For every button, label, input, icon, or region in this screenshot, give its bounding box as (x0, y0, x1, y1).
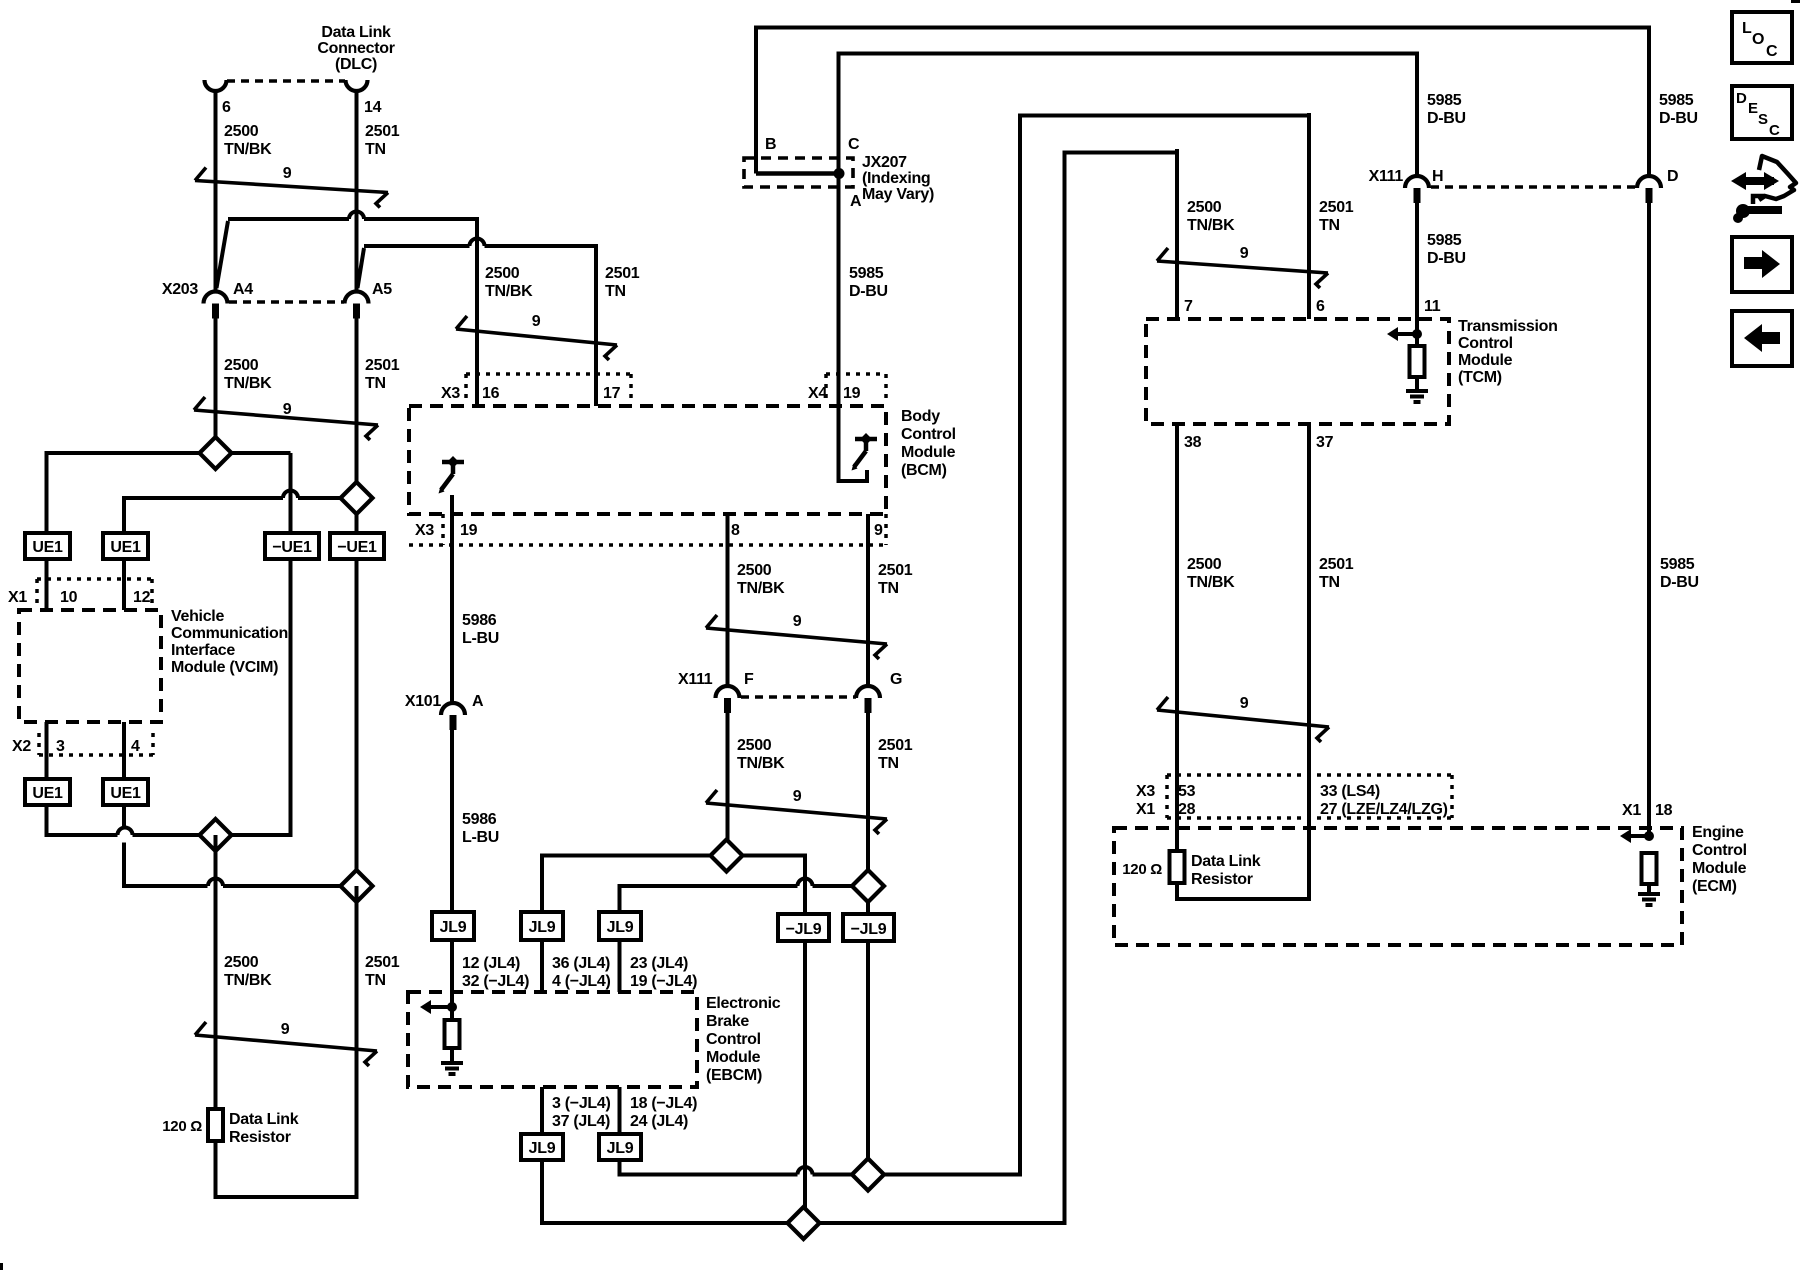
svg-text:Control: Control (1458, 335, 1513, 352)
svg-text:Interface: Interface (171, 642, 235, 659)
svg-text:120 Ω: 120 Ω (162, 1118, 202, 1135)
svg-text:A: A (472, 693, 484, 710)
wire 2501 TN DLC-14 to X203-A5 (355, 90, 359, 292)
wire tap from A4 to BCM X3-16 (horizontal y219) (228, 217, 349, 221)
resistor inside EBCM (445, 1020, 460, 1048)
svg-text:(Indexing: (Indexing (862, 170, 930, 187)
svg-text:4: 4 (131, 738, 140, 755)
wire JL9-3 to EBCM (618, 940, 622, 992)
icon harness arrows (1741, 177, 1774, 185)
wire EBCM resistor to ground (450, 1048, 454, 1062)
connector X111-D (dome) (1637, 176, 1661, 188)
svg-text:X1: X1 (8, 589, 27, 606)
svg-text:28: 28 (1178, 801, 1196, 818)
connector X203 dashed body (229, 300, 344, 304)
wire UE1-6 down crossing y835 (122, 804, 126, 828)
svg-text:Vehicle: Vehicle (171, 608, 224, 625)
wire 5985 D-BU C through JX207 to BCM X4 (837, 52, 841, 375)
svg-text:12 (JL4): 12 (JL4) (462, 955, 520, 972)
svg-text:120 Ω: 120 Ω (1122, 861, 1162, 878)
svg-text:9: 9 (1240, 245, 1249, 262)
wire 5985 H to TCM pin11 (1415, 203, 1419, 319)
svg-text:11: 11 (1424, 298, 1441, 315)
svg-text:C: C (1769, 122, 1780, 139)
connector X111 F-G dashed body (741, 695, 856, 699)
svg-text:D-BU: D-BU (849, 283, 888, 300)
wire UE1-5 down to y835 (45, 804, 49, 837)
svg-text:TN/BK: TN/BK (224, 375, 272, 392)
svg-text:3 (−JL4): 3 (−JL4) (552, 1095, 611, 1112)
svg-text:Resistor: Resistor (229, 1129, 291, 1146)
svg-text:37 (JL4): 37 (JL4) (552, 1113, 610, 1130)
module BCM dashed box (409, 406, 886, 514)
bus crossing 9 (DLC pair) (195, 181, 388, 193)
svg-text:2500: 2500 (224, 357, 259, 374)
wire horizontal y855 (542, 854, 711, 858)
wire B to C junction inside JX207 (754, 170, 758, 174)
bus crossing 9 (TCM lower) (1157, 710, 1329, 727)
svg-text:2501: 2501 (1319, 556, 1354, 573)
svg-text:TN/BK: TN/BK (737, 755, 785, 772)
svg-text:Body: Body (901, 408, 940, 425)
connector X4 pin row (BCM top) (826, 372, 886, 376)
svg-text:9: 9 (283, 165, 292, 182)
bus crossing 9 (BCM top pair) (456, 329, 617, 345)
wire -UE1-3 drop (289, 453, 293, 533)
wire B drop (754, 26, 758, 173)
svg-text:2500: 2500 (224, 123, 259, 140)
wire top y53 C to H (837, 52, 1420, 56)
bus crossing 9 (F/G lower) (706, 803, 887, 819)
splice UE1 box 2 (103, 533, 148, 559)
svg-text:Module (VCIM): Module (VCIM) (171, 659, 278, 676)
svg-text:X203: X203 (162, 281, 199, 298)
svg-text:Module: Module (1458, 352, 1513, 369)
svg-text:D-BU: D-BU (1427, 250, 1466, 267)
svg-text:TN/BK: TN/BK (224, 141, 272, 158)
wire 2501 TN A5 down (355, 318, 359, 498)
svg-text:14: 14 (364, 99, 382, 116)
connector X101-A (dome) (441, 703, 465, 715)
svg-text:5985: 5985 (1427, 92, 1462, 109)
svg-text:Brake: Brake (706, 1013, 749, 1030)
svg-text:−JL9: −JL9 (786, 921, 822, 938)
svg-text:6: 6 (222, 99, 231, 116)
svg-text:F: F (744, 671, 754, 688)
splice UE1 box 1 (25, 533, 70, 559)
svg-text:TN: TN (365, 141, 386, 158)
splice -UE1 box 4 (330, 533, 384, 559)
svg-text:38: 38 (1184, 434, 1202, 451)
connector JX207 dashed box (744, 158, 853, 187)
svg-text:2501: 2501 (1319, 199, 1354, 216)
svg-text:TN: TN (878, 755, 899, 772)
wire 5986 L-BU to JL9 (450, 730, 454, 912)
svg-text:−JL9: −JL9 (851, 921, 887, 938)
wire JL9-7 to y1174 (618, 1160, 622, 1177)
svg-text:TN: TN (365, 375, 386, 392)
svg-text:Module: Module (1692, 860, 1747, 877)
svg-text:Control: Control (1692, 842, 1747, 859)
svg-text:2501: 2501 (878, 737, 913, 754)
svg-text:TN: TN (1319, 217, 1340, 234)
svg-text:2501: 2501 (365, 123, 400, 140)
connector X2 pin row (39, 753, 153, 757)
wire tap from A5 to BCM X3-17 (horizontal y246) (364, 244, 470, 248)
svg-text:X1: X1 (1622, 802, 1641, 819)
svg-text:27 (LZE/LZ4/LZG): 27 (LZE/LZ4/LZG) (1320, 801, 1448, 818)
svg-text:D: D (1667, 168, 1678, 185)
svg-text:A5: A5 (372, 281, 392, 298)
svg-text:9: 9 (283, 401, 292, 418)
ground inside EBCM (441, 1061, 463, 1065)
wire inside EBCM to ground (450, 992, 454, 1020)
node junction diamond at (868,886) (852, 870, 884, 902)
svg-text:D-BU: D-BU (1427, 110, 1466, 127)
wire D drop (1647, 26, 1651, 177)
svg-text:37: 37 (1316, 434, 1334, 451)
splice JL9 box 2 (521, 912, 563, 940)
connector X111-F (dome) (716, 686, 740, 698)
wire X3-17 into BCM (594, 374, 598, 406)
svg-text:9: 9 (281, 1021, 290, 1038)
splice -JL9 box 6 (843, 914, 894, 941)
wire 5985 D to ECM (1647, 203, 1651, 836)
wire horizontal y453 to UE1 branches (47, 451, 200, 455)
icon back arrow box (1732, 311, 1792, 366)
wire JL9-1 to EBCM (450, 940, 454, 992)
connector DLC pin 14 (cup) (346, 80, 368, 91)
bus crossing 9 (A4/A5 pair) (194, 410, 378, 425)
svg-text:JL9: JL9 (529, 919, 556, 936)
node junction diamond at (357,498) (341, 482, 373, 514)
svg-text:X3: X3 (1136, 783, 1155, 800)
wire JL9-2 to EBCM (540, 940, 544, 992)
wire top y27 B to D (754, 26, 1651, 30)
mark top right corner (1791, 0, 1800, 3)
svg-text:JX207: JX207 (862, 154, 907, 171)
bus crossing 9 (left resistor pair) (195, 1035, 377, 1051)
svg-text:TN: TN (605, 283, 626, 300)
svg-text:16: 16 (482, 385, 500, 402)
svg-text:19 (−JL4): 19 (−JL4) (630, 973, 697, 990)
svg-text:5986: 5986 (462, 612, 497, 629)
wire horizontal y886 right (620, 884, 798, 888)
module TCM dashed box (1146, 319, 1449, 424)
splice UE1 box 6 (103, 779, 148, 805)
svg-text:5985: 5985 (1659, 92, 1694, 109)
connector X3 pin row (BCM bottom) (441, 514, 445, 545)
svg-text:36 (JL4): 36 (JL4) (552, 955, 610, 972)
ground inside ECM (1638, 892, 1660, 896)
svg-text:May Vary): May Vary) (862, 186, 934, 203)
wire y1223 to x1063 riser (820, 1221, 1067, 1225)
svg-text:(ECM): (ECM) (1692, 878, 1737, 895)
connector X3/X1 pin row (ECM) (1167, 773, 1452, 777)
wire UE1-2 drop (122, 496, 126, 533)
svg-text:A: A (850, 193, 862, 210)
svg-text:Control: Control (901, 426, 956, 443)
connector X111-H (dome) (1405, 176, 1429, 188)
svg-text:2501: 2501 (878, 562, 913, 579)
wire pin11 inside TCM (1415, 319, 1419, 346)
svg-text:X111: X111 (1369, 168, 1404, 185)
svg-text:9: 9 (793, 788, 802, 805)
svg-text:19: 19 (460, 522, 478, 539)
svg-text:5985: 5985 (849, 265, 884, 282)
svg-text:X4: X4 (808, 385, 827, 402)
svg-text:Data Link: Data Link (1191, 853, 1261, 870)
wire -UE1-4 drop (355, 514, 359, 533)
svg-text:TN: TN (878, 580, 899, 597)
svg-text:19: 19 (843, 385, 861, 402)
wire G down to diamond (866, 713, 870, 886)
splice JL9 box 3 (599, 912, 641, 940)
wire -UE1-4 down to diamond (355, 559, 359, 870)
wire pin8 to X111-F (726, 514, 730, 687)
splice -JL9 box 5 (778, 914, 829, 941)
svg-text:D-BU: D-BU (1659, 110, 1698, 127)
svg-text:Transmission: Transmission (1458, 318, 1558, 335)
mark bottom left edge (0, 1263, 3, 1270)
wire X2-4 to UE1-6 (122, 722, 126, 779)
svg-text:E: E (1748, 100, 1758, 117)
svg-text:24 (JL4): 24 (JL4) (630, 1113, 688, 1130)
svg-text:4 (−JL4): 4 (−JL4) (552, 973, 611, 990)
svg-text:TN: TN (1319, 574, 1340, 591)
wire JL9-4 to y1223 (540, 1160, 544, 1225)
svg-text:2500: 2500 (1187, 556, 1222, 573)
svg-text:33 (LS4): 33 (LS4) (1320, 783, 1380, 800)
svg-text:Electronic: Electronic (706, 995, 781, 1012)
connector X1 pin row (37, 577, 152, 581)
svg-text:23 (JL4): 23 (JL4) (630, 955, 688, 972)
wire EBCM pin18/24 down (618, 1087, 622, 1134)
svg-text:TN/BK: TN/BK (737, 580, 785, 597)
svg-text:TN/BK: TN/BK (1187, 217, 1235, 234)
svg-text:L-BU: L-BU (462, 630, 499, 647)
svg-text:32 (−JL4): 32 (−JL4) (462, 973, 529, 990)
connector X203-A5 (dome) (345, 292, 369, 304)
wire TCM pin38 down (1175, 424, 1179, 851)
tap symbol inside BCM at X4 (855, 437, 877, 442)
svg-text:(TCM): (TCM) (1458, 369, 1502, 386)
node junction diamond at (215,835) (200, 819, 232, 851)
wire -UE1-3 to y835 corner (289, 559, 293, 837)
svg-text:D: D (1736, 90, 1747, 107)
wire 2500 TN/BK to left data link resistor (214, 835, 218, 1109)
module ECM dashed box (1114, 828, 1682, 945)
svg-text:UE1: UE1 (32, 785, 63, 802)
wire H drop (1415, 52, 1419, 177)
wire top y151 to TCM pin7 (1063, 151, 1180, 155)
svg-text:9: 9 (874, 522, 883, 539)
resistor 120 ohm left (Data Link Resistor) (208, 1109, 223, 1141)
svg-text:−UE1: −UE1 (272, 539, 312, 556)
svg-text:8: 8 (731, 522, 740, 539)
svg-text:Resistor: Resistor (1191, 871, 1253, 888)
resistor inside TCM (1410, 346, 1425, 377)
svg-text:X1: X1 (1136, 801, 1155, 818)
svg-text:L-BU: L-BU (462, 829, 499, 846)
wire 2500 TN/BK DLC-6 to X203-A4 (214, 90, 218, 292)
wire F down to diamond (726, 713, 730, 855)
node junction diamond at (726,855) (711, 840, 743, 872)
bus crossing 9 (TCM upper) (1157, 261, 1328, 273)
svg-text:5985: 5985 (1427, 232, 1462, 249)
arrow tap inside TCM (1412, 329, 1422, 339)
node junction diamond at (357,886) (341, 870, 373, 902)
wire 2501 TN to left U loop (355, 886, 359, 1199)
node junction diamond at (868,1174) (852, 1159, 884, 1191)
wire left U loop (214, 1141, 218, 1199)
svg-text:2501: 2501 (365, 357, 400, 374)
module VCIM dashed box (19, 610, 161, 722)
svg-text:7: 7 (1184, 298, 1193, 315)
wire x868 vertical (-JL9 branch) (866, 902, 870, 1159)
svg-text:JL9: JL9 (607, 919, 634, 936)
svg-text:−UE1: −UE1 (337, 539, 377, 556)
connector X203-A4 (dome) (204, 292, 228, 304)
module EBCM dashed box (408, 992, 697, 1087)
wire EBCM pin3/37 down (540, 1087, 544, 1134)
wire right U loop (1175, 883, 1179, 901)
wire pin9 to X111-G (866, 514, 870, 687)
svg-text:2500: 2500 (1187, 199, 1222, 216)
svg-text:L: L (1742, 20, 1752, 37)
svg-text:O: O (1752, 31, 1764, 48)
arrow tap inside EBCM (447, 1002, 457, 1012)
wire X3-19 down from BCM (450, 495, 454, 703)
svg-text:53: 53 (1178, 783, 1196, 800)
wire ECM resistor to ground (1647, 884, 1651, 893)
svg-text:Module: Module (901, 444, 956, 461)
node junction diamond at (803,1223) (788, 1207, 820, 1239)
svg-text:2500: 2500 (485, 265, 520, 282)
splice JL9 box 4 (521, 1134, 563, 1160)
icon LOC box (1732, 12, 1792, 63)
svg-text:G: G (890, 671, 902, 688)
svg-text:TN/BK: TN/BK (224, 972, 272, 989)
svg-text:JL9: JL9 (440, 919, 467, 936)
svg-text:(DLC): (DLC) (335, 56, 377, 73)
svg-text:X3: X3 (441, 385, 460, 402)
svg-text:X101: X101 (405, 693, 442, 710)
svg-text:UE1: UE1 (110, 539, 141, 556)
svg-text:Data Link: Data Link (229, 1111, 299, 1128)
svg-text:5985: 5985 (1660, 556, 1695, 573)
resistor inside ECM (1642, 853, 1657, 884)
svg-text:9: 9 (793, 613, 802, 630)
wire horizontal y886 (122, 884, 208, 888)
svg-text:TN: TN (365, 972, 386, 989)
svg-text:S: S (1758, 111, 1768, 128)
svg-text:18 (−JL4): 18 (−JL4) (630, 1095, 697, 1112)
wire JL9-3 drop from y886 (618, 884, 622, 912)
wire 2500 TN/BK A4 down (214, 318, 218, 453)
svg-text:Communication: Communication (171, 625, 288, 642)
svg-text:(EBCM): (EBCM) (706, 1067, 762, 1084)
connector X111-G (dome) (856, 686, 880, 698)
svg-text:18: 18 (1655, 802, 1673, 819)
splice UE1 box 5 (25, 779, 70, 805)
svg-text:B: B (765, 136, 776, 153)
svg-text:Connector: Connector (317, 40, 394, 57)
svg-text:X3: X3 (415, 522, 434, 539)
svg-text:12: 12 (133, 589, 151, 606)
svg-text:X2: X2 (12, 738, 31, 755)
svg-text:TN/BK: TN/BK (485, 283, 533, 300)
splice JL9 box 7 (599, 1134, 641, 1160)
icon forward arrow box (1732, 237, 1792, 292)
tap symbol inside BCM at X3-19 (442, 460, 464, 465)
wire horizontal y835 (45, 833, 118, 837)
svg-text:JL9: JL9 (529, 1140, 556, 1157)
svg-text:C: C (848, 136, 860, 153)
wire horizontal y498 (124, 496, 283, 500)
bus crossing 9 (F/G upper) (706, 628, 887, 644)
svg-text:Control: Control (706, 1031, 761, 1048)
svg-text:2500: 2500 (737, 737, 772, 754)
icon DESC box (1732, 86, 1792, 139)
wire 5985 D-BU X4-19 into BCM with hook (837, 374, 841, 483)
svg-text:17: 17 (603, 385, 621, 402)
wire UE1-2 to X1-12 (122, 559, 126, 610)
svg-text:Data Link: Data Link (321, 24, 391, 41)
svg-text:10: 10 (60, 589, 78, 606)
arrow tap inside ECM (1644, 831, 1654, 841)
wire JL9-2 drop from y855 (540, 854, 544, 913)
node junction diamond at (215,453) (200, 437, 232, 469)
wire y1174 to x1019 riser (884, 1173, 1022, 1177)
wire X3-16 into BCM (475, 374, 479, 406)
svg-text:JL9: JL9 (607, 1140, 634, 1157)
svg-text:6: 6 (1316, 298, 1325, 315)
svg-text:Engine: Engine (1692, 824, 1744, 841)
svg-text:2500: 2500 (737, 562, 772, 579)
connector DLC dashed body (227, 79, 345, 83)
svg-text:TN/BK: TN/BK (1187, 574, 1235, 591)
wire x805 vertical (-JL9 branch) (803, 856, 807, 1224)
connector X3 pin row (BCM top) (466, 372, 631, 376)
wire TCM pin37 down (1307, 424, 1311, 899)
svg-text:9: 9 (532, 313, 541, 330)
ground inside TCM (1406, 389, 1428, 393)
svg-text:5986: 5986 (462, 811, 497, 828)
svg-text:H: H (1432, 168, 1443, 185)
svg-text:A4: A4 (233, 281, 253, 298)
wire TCM resistor to ground (1415, 377, 1419, 390)
svg-text:C: C (1766, 43, 1778, 60)
svg-text:3: 3 (56, 738, 65, 755)
svg-text:D-BU: D-BU (1660, 574, 1699, 591)
svg-text:Module: Module (706, 1049, 761, 1066)
svg-text:UE1: UE1 (32, 539, 63, 556)
svg-text:(BCM): (BCM) (901, 462, 947, 479)
svg-text:2500: 2500 (224, 954, 259, 971)
wire UE1-1 to X1-10 (45, 559, 49, 610)
connector X111 H-D dashed body (1431, 185, 1636, 189)
wire UE1-1 drop (45, 451, 49, 533)
wire X2-3 to UE1-5 (45, 722, 49, 779)
wire top y115 to TCM pin6 (1018, 114, 1311, 118)
resistor 120 ohm right (Data Link Resistor) (1170, 851, 1185, 883)
connector DLC pin 6 (cup) (205, 80, 227, 91)
splice -UE1 box 3 (265, 533, 319, 559)
svg-text:2501: 2501 (605, 265, 640, 282)
svg-text:9: 9 (1240, 695, 1249, 712)
splice JL9 box 1 (432, 912, 474, 940)
